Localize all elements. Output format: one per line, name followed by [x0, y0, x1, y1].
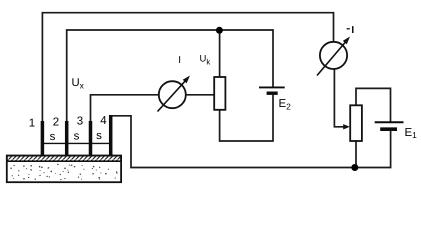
wire: probe2 riser, inner rail to battery E2 top [67, 30, 273, 122]
specimen bar (sample under test) [7, 156, 121, 183]
svg-text:E1: E1 [405, 127, 418, 140]
battery E1 [375, 122, 404, 129]
junction dot: bottom rail node [351, 164, 358, 171]
rheostat wiper arrowhead [343, 124, 350, 129]
probe 1 [41, 121, 45, 156]
svg-text:s: s [74, 130, 80, 142]
wire: rheostat R bottom riser to junction [355, 141, 357, 168]
rheostat R1 [350, 105, 362, 141]
probe 3 [89, 121, 93, 156]
spacing dimension line s3 [92, 142, 109, 144]
wire: probe1 riser, top rail to right galvanometer [42, 13, 333, 122]
galvanometer G1 [158, 76, 191, 112]
svg-text:3: 3 [77, 116, 83, 128]
svg-text:E2: E2 [279, 98, 292, 111]
wire: bottom rail junction to battery E1 bottom [355, 131, 391, 168]
wire: battery E1 top to rheostat R top [356, 88, 391, 122]
svg-text:2: 2 [53, 117, 59, 129]
wire: Uk bottom to battery E2 bottom [220, 95, 273, 141]
svg-text:Uk: Uk [200, 54, 211, 67]
potentiometer Uk [214, 77, 225, 110]
wire: probe4 to bottom rail [109, 116, 355, 168]
probe 2 [65, 121, 69, 156]
wire: right galvanometer bottom to rheostat wiper [334, 69, 344, 127]
spacing dimension line s1 [44, 142, 65, 144]
svg-text:4: 4 [100, 115, 107, 127]
battery E2 [259, 87, 285, 93]
probe 4 [109, 115, 113, 156]
wire: galvanometer G1 right terminal to Uk wiper [186, 94, 215, 96]
galvanometer G2 [317, 37, 350, 76]
tick before current label I (G2) [347, 28, 350, 30]
svg-text:s: s [50, 131, 56, 143]
svg-text:I: I [351, 25, 354, 36]
wire: Uk potentiometer top riser from node A [219, 30, 221, 77]
spacing dimension line s2 [68, 142, 89, 144]
node A junction dot [216, 27, 223, 34]
svg-text:Ux: Ux [72, 77, 85, 91]
svg-text:I: I [178, 55, 181, 66]
wire: probe3 riser to galvanometer G1 left terminal [91, 95, 159, 122]
svg-text:1: 1 [29, 117, 35, 129]
svg-text:s: s [96, 130, 102, 142]
